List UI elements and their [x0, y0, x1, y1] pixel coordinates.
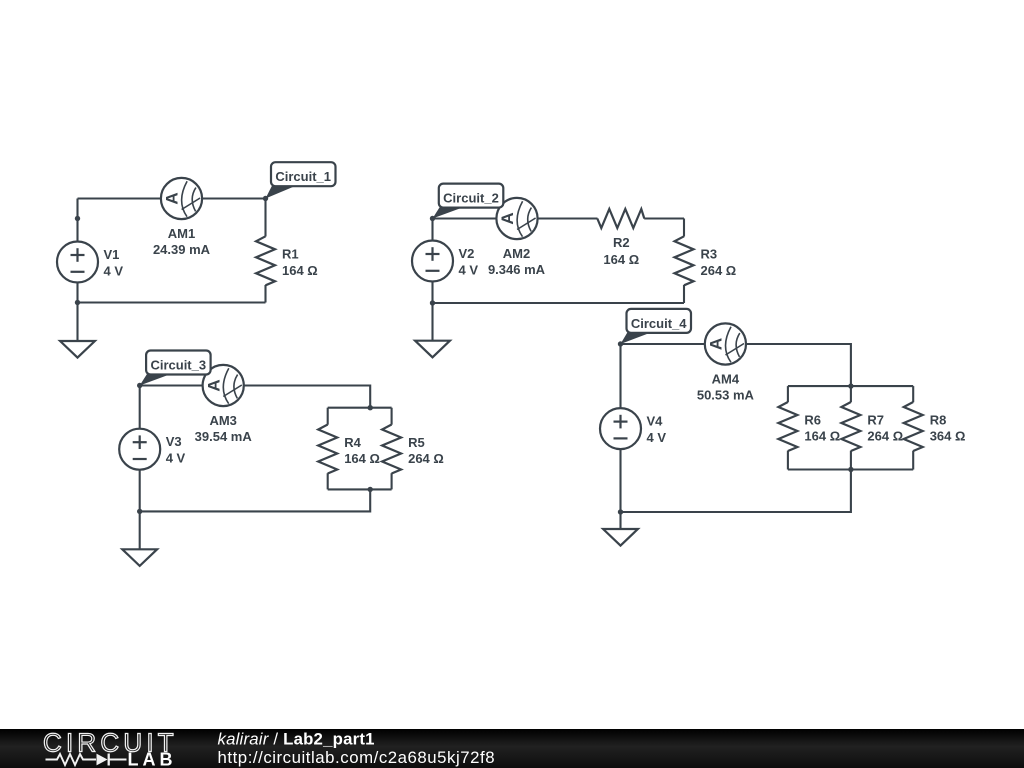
node junction parallel top C4 — [848, 383, 853, 388]
svg-text:Circuit_4: Circuit_4 — [631, 316, 687, 331]
node C circuit3 (tag anchor) — [137, 383, 142, 388]
wire parallel top rail C4 — [788, 385, 913, 387]
ground circuit4 — [603, 512, 638, 546]
svg-text:V2: V2 — [459, 246, 475, 261]
svg-text:264 Ω: 264 Ω — [867, 429, 903, 444]
wire V2 bottom stub — [431, 281, 433, 303]
node junction parallel bottom C3 — [368, 487, 373, 492]
wire parallel bottom rail C3 — [328, 488, 392, 490]
resistor R2 — [597, 209, 644, 228]
svg-text:R6: R6 — [804, 412, 821, 427]
net tag Circuit_2 — [433, 184, 504, 219]
wire R7 top stub — [850, 386, 852, 402]
svg-text:364 Ω: 364 Ω — [930, 429, 966, 444]
svg-text:http://circuitlab.com/c2a68u5k: http://circuitlab.com/c2a68u5kj72f8 — [218, 748, 496, 767]
wire circuit2 bottom rail — [433, 302, 685, 304]
svg-text:R5: R5 — [408, 435, 425, 450]
svg-text:Circuit_3: Circuit_3 — [150, 358, 206, 373]
svg-text:9.346 mA: 9.346 mA — [488, 262, 546, 277]
wire parallel bottom rail C4 — [788, 468, 913, 470]
voltage source V2 — [412, 241, 453, 282]
svg-text:164 Ω: 164 Ω — [344, 451, 380, 466]
logo resistor-diode glyph — [46, 754, 97, 765]
wire V1 bottom stub — [76, 282, 78, 303]
wire R6 top stub — [787, 386, 789, 402]
wire V4 bottom stub — [619, 449, 621, 513]
svg-text:AM1: AM1 — [168, 226, 195, 241]
wire R1 bottom stub — [264, 285, 266, 303]
svg-text:264 Ω: 264 Ω — [701, 263, 737, 278]
svg-text:A: A — [707, 338, 726, 350]
ammeter AM4 — [705, 323, 746, 364]
node A circuit1 (tag anchor) — [263, 196, 268, 201]
svg-text:39.54 mA: 39.54 mA — [195, 429, 253, 444]
node junction parallel bottom C4 — [848, 467, 853, 472]
ammeter AM2 — [496, 198, 537, 239]
svg-text:AM2: AM2 — [503, 246, 530, 261]
node junction C4 bottom-left — [618, 509, 623, 514]
wire parallel top rail C3 — [328, 407, 392, 409]
node junction C3 bottom-left — [137, 509, 142, 514]
wire R8 top stub — [912, 386, 914, 402]
svg-text:164 Ω: 164 Ω — [603, 252, 639, 267]
wire V4 top stub — [619, 344, 621, 409]
resistor R8 — [904, 402, 923, 451]
resistor R7 — [841, 402, 860, 451]
wire circuit1 top rail — [78, 197, 266, 199]
node junction parallel top C3 — [368, 405, 373, 410]
wire R5 bottom stub — [391, 473, 393, 489]
wire circuit2 top rail left — [433, 217, 598, 219]
net tag Circuit_3 — [140, 351, 211, 386]
resistor R3 — [675, 236, 694, 285]
wire R6 bottom stub — [787, 451, 789, 470]
wire circuit1 bottom rail — [78, 301, 266, 303]
wire R7 bottom stub — [850, 451, 852, 470]
wire R5 top stub — [391, 408, 393, 425]
net tag Circuit_1 — [266, 162, 336, 198]
ground circuit1 — [60, 303, 95, 358]
svg-text:R8: R8 — [930, 412, 947, 427]
node B circuit2 (tag anchor) — [430, 216, 435, 221]
wire R8 bottom stub — [912, 451, 914, 470]
svg-text:kalirair / Lab2_part1: kalirair / Lab2_part1 — [218, 730, 375, 749]
wire R4 top stub — [327, 408, 329, 425]
wire V2 top stub — [431, 219, 433, 242]
node junction C1 bottom-left — [75, 300, 80, 305]
ammeter AM1 — [161, 178, 202, 219]
svg-text:Circuit_1: Circuit_1 — [275, 169, 331, 184]
resistor R1 — [256, 236, 275, 285]
svg-text:V4: V4 — [647, 413, 664, 428]
ammeter AM3 — [203, 365, 244, 406]
voltage source V1 — [57, 242, 98, 283]
svg-text:R4: R4 — [344, 435, 361, 450]
node junction C2 bottom-left — [430, 300, 435, 305]
svg-text:LAB: LAB — [128, 750, 177, 768]
svg-text:A: A — [204, 379, 223, 391]
wire R1 top stub — [264, 199, 266, 237]
wire V1 top stub — [76, 199, 78, 243]
ground circuit3 — [122, 511, 157, 566]
net tag Circuit_4 — [621, 309, 692, 344]
svg-text:164 Ω: 164 Ω — [282, 263, 318, 278]
svg-text:A: A — [498, 212, 517, 224]
svg-text:164 Ω: 164 Ω — [804, 429, 840, 444]
wire R3 top stub — [683, 219, 685, 237]
svg-text:AM4: AM4 — [712, 371, 740, 386]
svg-text:A: A — [163, 192, 182, 204]
svg-text:V3: V3 — [166, 434, 182, 449]
svg-text:V1: V1 — [104, 247, 120, 262]
resistor R6 — [778, 402, 797, 451]
footer bar background — [0, 729, 1024, 768]
resistor R4 — [318, 425, 337, 474]
svg-text:4 V: 4 V — [647, 430, 667, 445]
resistor R5 — [382, 425, 401, 474]
svg-text:24.39 mA: 24.39 mA — [153, 242, 211, 257]
wire circuit2 top rail right — [644, 217, 684, 219]
svg-text:R3: R3 — [701, 247, 718, 262]
wire V3 top stub — [139, 386, 141, 430]
wire V3 bottom stub — [139, 469, 141, 511]
svg-text:R7: R7 — [867, 412, 884, 427]
svg-text:4 V: 4 V — [459, 262, 479, 277]
svg-text:AM3: AM3 — [209, 413, 236, 428]
wire circuit4 bottom rail — [621, 470, 851, 513]
wire R4 bottom stub — [327, 473, 329, 489]
voltage source V3 — [119, 429, 160, 470]
node junction V1 top — [75, 216, 80, 221]
wire R3 bottom stub — [683, 285, 685, 303]
svg-text:R2: R2 — [613, 235, 630, 250]
wire circuit4 top rail — [621, 344, 851, 386]
voltage source V4 — [600, 408, 641, 449]
svg-text:264 Ω: 264 Ω — [408, 451, 444, 466]
wire circuit3 top rail — [140, 386, 371, 408]
node D circuit4 (tag anchor) — [618, 341, 623, 346]
svg-text:Circuit_2: Circuit_2 — [443, 191, 499, 206]
wire circuit3 bottom rail — [140, 489, 371, 511]
svg-text:4 V: 4 V — [104, 263, 124, 278]
ground circuit2 — [415, 303, 450, 357]
svg-text:50.53 mA: 50.53 mA — [697, 388, 755, 403]
svg-text:R1: R1 — [282, 247, 299, 262]
svg-text:4 V: 4 V — [166, 451, 186, 466]
